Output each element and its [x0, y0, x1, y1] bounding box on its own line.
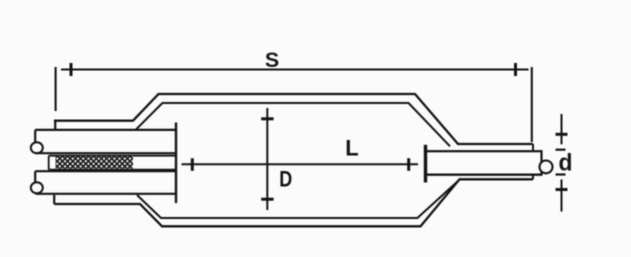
dimension d upper arrow	[556, 114, 568, 144]
envelope inner wall (top)	[136, 103, 450, 146]
svg-text:d: d	[559, 149, 573, 176]
dimension d lower arrow	[556, 180, 568, 212]
seal end wall line	[175, 123, 177, 204]
bottom lead tube	[31, 171, 176, 194]
S extension line right	[531, 67, 533, 142]
svg-text:L: L	[345, 136, 358, 161]
dimension L line	[182, 158, 419, 171]
envelope left seal edge (top)	[54, 120, 56, 130]
molybdenum foil (hatched)	[49, 156, 176, 170]
S extension line left	[55, 67, 57, 111]
dimension S line	[61, 63, 529, 76]
svg-text:S: S	[265, 48, 279, 72]
envelope inner wall (bottom)	[137, 182, 458, 219]
right terminal sleeve	[426, 145, 553, 183]
dimension D line	[261, 108, 273, 210]
svg-text:D: D	[279, 167, 292, 192]
envelope left seal edge (bottom)	[53, 195, 55, 204]
lamp envelope outer outline (top)	[54, 94, 533, 144]
lamp envelope outer outline (bottom)	[54, 179, 533, 226]
top lead tube	[31, 130, 176, 153]
envelope neck end face (right)	[532, 144, 534, 179]
d tick top	[556, 149, 566, 151]
d tick bottom	[556, 173, 566, 175]
